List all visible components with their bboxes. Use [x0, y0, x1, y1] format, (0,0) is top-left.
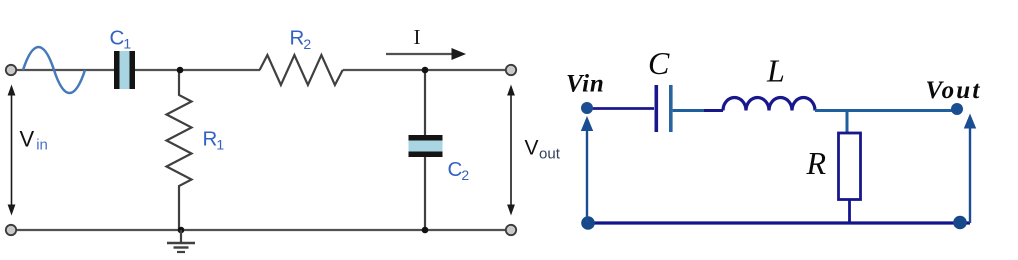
wire R2 to output terminal [343, 69, 508, 71]
capacitor C2 [409, 135, 443, 157]
wire inductor to Vout node [815, 109, 953, 112]
capacitor C1 [114, 51, 135, 89]
svg-text:R1: R1 [203, 128, 225, 153]
svg-text:C: C [648, 45, 670, 81]
resistor R [839, 133, 861, 200]
capacitor C right plate [669, 85, 673, 132]
Vout measurement arrow (double headed) [507, 85, 515, 216]
junction node at C2 top [422, 67, 429, 74]
svg-text:C1: C1 [110, 26, 132, 51]
terminal input bottom [6, 225, 16, 235]
svg-text:R2: R2 [290, 27, 312, 52]
node Vout dot [951, 103, 963, 115]
terminal input top [6, 65, 16, 75]
junction node at ground [178, 227, 185, 234]
terminal output top [506, 65, 516, 75]
junction node at R1 top [177, 67, 184, 74]
Vin measurement arrow (double headed) [8, 85, 16, 216]
wire C2 branch lower [424, 157, 426, 230]
svg-text:Vin: Vin [566, 71, 605, 98]
current arrow I [386, 48, 466, 60]
terminal output bottom [506, 225, 516, 235]
wire navy segment before inductor [704, 109, 723, 112]
ground [167, 230, 195, 252]
node bottom right dot [953, 216, 967, 230]
wire C2 branch upper [424, 70, 426, 135]
Vout node arrow (up) [964, 114, 976, 224]
wire bottom rail left circuit [11, 229, 508, 231]
wire capacitor C to inductor (steel segment) [673, 109, 704, 112]
Vin node arrow (up) [581, 116, 593, 223]
svg-text:C2: C2 [448, 158, 470, 183]
inductor L [723, 98, 815, 111]
svg-text:L: L [766, 53, 785, 89]
node bottom left dot [581, 216, 595, 230]
svg-text:Vout: Vout [926, 77, 982, 104]
node Vin dot [581, 102, 593, 114]
resistor R1 [167, 70, 192, 230]
junction node at C2 bottom [422, 227, 429, 234]
svg-text:Vin: Vin [20, 126, 48, 153]
wire R bottom stub [848, 200, 851, 224]
resistor R2 [260, 55, 343, 85]
wire R top stub [846, 111, 849, 134]
wire Vin node to capacitor C (right circuit) [588, 107, 654, 110]
AC source sine wave [23, 47, 85, 93]
svg-text:R: R [806, 145, 827, 181]
wire top rail left circuit (input to C1) [11, 69, 114, 71]
capacitor C left plate [655, 85, 659, 132]
svg-text:Vout: Vout [525, 137, 561, 163]
wire bottom rail right circuit [588, 221, 970, 224]
svg-text:I: I [414, 25, 421, 49]
wire C1 to R2 [135, 69, 260, 71]
